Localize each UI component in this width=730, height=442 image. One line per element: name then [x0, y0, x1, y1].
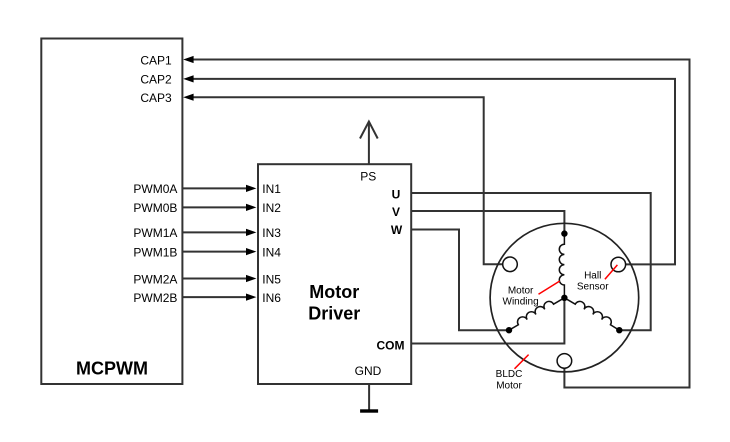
svg-text:GND: GND	[355, 364, 382, 378]
svg-text:PWM1A: PWM1A	[133, 226, 177, 240]
svg-text:U: U	[392, 187, 401, 201]
svg-text:PWM2A: PWM2A	[133, 272, 177, 286]
svg-text:PWM0A: PWM0A	[133, 182, 177, 196]
svg-text:IN1: IN1	[262, 182, 281, 196]
svg-text:CAP2: CAP2	[140, 73, 172, 87]
svg-text:PS: PS	[360, 170, 376, 184]
svg-text:IN2: IN2	[262, 201, 281, 215]
svg-text:PWM2B: PWM2B	[133, 291, 177, 305]
svg-text:Winding: Winding	[503, 296, 539, 307]
svg-text:IN4: IN4	[262, 245, 281, 259]
svg-text:Hall: Hall	[584, 270, 601, 281]
svg-text:IN3: IN3	[262, 226, 281, 240]
svg-text:V: V	[392, 205, 400, 219]
svg-text:Driver: Driver	[308, 303, 360, 323]
svg-text:CAP1: CAP1	[140, 53, 172, 67]
svg-text:IN5: IN5	[262, 272, 281, 286]
svg-text:COM: COM	[377, 338, 405, 352]
svg-text:CAP3: CAP3	[140, 91, 172, 105]
svg-text:PWM1B: PWM1B	[133, 245, 177, 259]
svg-text:Sensor: Sensor	[577, 281, 609, 292]
svg-text:Motor: Motor	[496, 380, 522, 391]
svg-text:PWM0B: PWM0B	[133, 201, 177, 215]
svg-text:MCPWM: MCPWM	[76, 358, 148, 378]
svg-text:W: W	[391, 223, 403, 237]
svg-text:Motor: Motor	[309, 282, 359, 302]
svg-text:IN6: IN6	[262, 291, 281, 305]
svg-text:Motor: Motor	[508, 286, 534, 297]
svg-text:BLDC: BLDC	[496, 369, 523, 380]
